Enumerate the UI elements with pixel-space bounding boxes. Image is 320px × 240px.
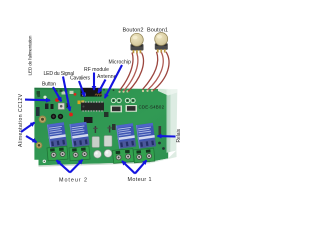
arrow Alimentation 1 xyxy=(21,123,35,133)
arrow Button xyxy=(53,87,61,101)
screw terminal S1 (power +) xyxy=(39,116,47,124)
relay K3 xyxy=(116,123,136,149)
terminal block T4 xyxy=(133,148,155,163)
svg-text:RF module: RF module xyxy=(84,67,109,73)
arrow Moteur2 left xyxy=(57,160,71,172)
terminal block T1 xyxy=(47,146,68,161)
capacitor C1 xyxy=(51,114,56,119)
transistor Q2 xyxy=(51,104,54,109)
terminal block T3 xyxy=(112,149,134,164)
wire B2-1 xyxy=(120,53,134,91)
PCB bottom edge xyxy=(39,162,151,167)
capacitor C2 xyxy=(58,114,63,119)
screw terminal S2 (power -) xyxy=(36,142,43,149)
svg-text:Moteur 1: Moteur 1 xyxy=(128,177,152,183)
arrow LED du Signal xyxy=(63,77,70,111)
arrow Moteur2 right xyxy=(70,160,83,173)
signal LED (red) xyxy=(69,113,73,117)
hole top-left xyxy=(37,94,40,97)
LED red top edge xyxy=(74,93,77,96)
capacitor C4 (side, silver) xyxy=(104,136,112,147)
power LED (red) xyxy=(55,98,59,102)
resistor R3 standing xyxy=(107,126,111,133)
svg-text:Moteur 2: Moteur 2 xyxy=(59,177,87,183)
antenna coil xyxy=(95,94,102,96)
PCB right pale strip outer xyxy=(170,89,177,152)
push button B1 cap xyxy=(155,33,168,46)
capacitor C5 (top, white) xyxy=(94,150,102,158)
PCB right pale strip xyxy=(167,90,171,153)
pad dots right xyxy=(158,142,165,150)
SMD chip U3 xyxy=(111,106,123,113)
wire B2-2 xyxy=(124,53,138,91)
push button B2 cap xyxy=(130,33,143,46)
transistor Q3 xyxy=(67,103,70,108)
wire B1-2 xyxy=(148,52,164,90)
arrow Moteur1 right xyxy=(135,160,147,173)
pad P2 xyxy=(70,91,74,94)
transistor Q1 xyxy=(45,104,49,110)
component D4 xyxy=(104,112,109,117)
arrow Relais xyxy=(158,135,176,137)
arrow Microchip xyxy=(105,65,122,98)
arrow Antenne xyxy=(98,80,105,93)
svg-text:Button: Button xyxy=(42,81,56,87)
resistor R1 xyxy=(159,126,162,136)
resistor R2 standing xyxy=(93,126,97,133)
wire pads top edge xyxy=(118,90,153,93)
pad P1 xyxy=(62,91,66,94)
arrow Moteur1 left xyxy=(122,161,135,174)
PCB bottom-right pale wedge xyxy=(150,151,177,164)
capacitor C6 (top, white) xyxy=(104,150,112,158)
svg-text:Alimentation CC12V: Alimentation CC12V xyxy=(18,93,24,147)
arrow Cavaliers xyxy=(79,81,85,97)
svg-text:Bouton1: Bouton1 xyxy=(147,28,168,34)
top edge dark band xyxy=(34,88,80,90)
wire B1-3 xyxy=(153,52,169,91)
terminal block T2 xyxy=(69,146,90,161)
capacitor C3 (side, silver) xyxy=(92,137,100,148)
component D3 xyxy=(112,124,116,130)
component cluster D1 xyxy=(84,117,93,123)
push button B1 base xyxy=(155,43,168,52)
svg-text:CDE-S4B02: CDE-S4B02 xyxy=(139,105,165,110)
svg-text:Cavaliers: Cavaliers xyxy=(70,75,90,81)
RF module U2 xyxy=(81,88,102,97)
PCB washed top-right corner xyxy=(158,89,177,96)
relay K1 xyxy=(47,122,67,148)
arrow LED alimentation xyxy=(25,99,50,102)
arrow RF module xyxy=(93,73,95,91)
svg-text:Relais: Relais xyxy=(176,129,182,143)
relay K2 xyxy=(69,122,89,148)
silkscreen circles xyxy=(111,98,135,102)
SMD chip U4 xyxy=(126,105,138,112)
silkscreen dot xyxy=(43,96,46,99)
wire B2-3 xyxy=(128,53,143,92)
PCB board xyxy=(34,88,168,166)
silkscreen circle pins xyxy=(113,100,134,102)
solder pads top edge xyxy=(37,89,115,95)
push button B2 base xyxy=(131,44,144,53)
wire B1-1 xyxy=(143,52,158,90)
relay K4 xyxy=(136,123,156,149)
microchip U1 (DIP) xyxy=(81,102,104,111)
connector left edge xyxy=(36,107,40,116)
arrow Alimentation 2 xyxy=(26,136,37,142)
hole bottom-left xyxy=(43,160,46,163)
jumpers (cavaliers) xyxy=(78,101,85,105)
svg-text:Microchip: Microchip xyxy=(109,60,132,66)
svg-text:LED de l'alimentation: LED de l'alimentation xyxy=(28,35,33,75)
tactile button S3 xyxy=(58,103,65,110)
svg-text:Bouton2: Bouton2 xyxy=(123,28,144,34)
